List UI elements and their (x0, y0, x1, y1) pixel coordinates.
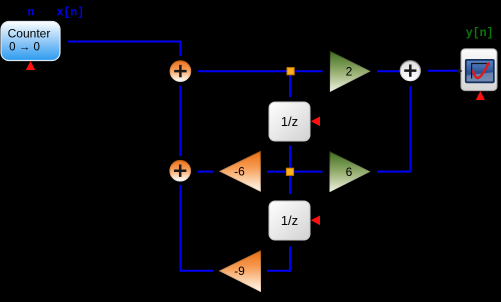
svg-text:0 → 0: 0 → 0 (9, 41, 40, 53)
wire junction2 -> gain-6 input (267, 171, 287, 173)
wire junction2 -> delay2 top (289, 176, 291, 194)
wire gain2 -> sum3 (377, 70, 400, 72)
scope input port arrow (458, 69, 463, 74)
wire delay2 bottom -> gain-9 input (267, 247, 290, 271)
gain G2 (value 2) (330, 51, 369, 91)
delay block 1/z #2 (269, 201, 310, 240)
svg-text:2: 2 (346, 64, 353, 78)
wire junction1 -> delay1 top (289, 75, 291, 97)
wire counter -> sum1 top (68, 42, 180, 57)
svg-text:-9: -9 (234, 264, 245, 278)
delay block 1/z #1 (269, 102, 310, 141)
svg-text:6: 6 (346, 165, 353, 179)
svg-text:-6: -6 (234, 164, 245, 178)
sum S2 (170, 161, 190, 181)
delay2 event output (red triangle) (311, 216, 320, 226)
sum S1 (170, 61, 190, 81)
wire gain-6 -> sum2 (198, 171, 214, 173)
wire sum3 -> scope (428, 70, 458, 72)
scope event port (red triangle) (476, 91, 485, 100)
sum S3 (400, 61, 420, 81)
junction node 1 (287, 68, 294, 75)
svg-text:1/z: 1/z (281, 213, 298, 228)
wire gain6 -> sum3 bottom (377, 87, 411, 172)
wire sum1 -> junction1 -> gain2 (198, 70, 323, 72)
gain G-6 (value -6) (220, 152, 260, 192)
gain G6 (value 6) (330, 152, 369, 192)
svg-text:y[n]: y[n] (466, 27, 494, 40)
scope block (461, 49, 497, 91)
svg-text:n: n (28, 6, 35, 19)
delay1 event output (red triangle) (311, 117, 320, 127)
wire delay1 bottom -> junction2 (289, 146, 291, 169)
svg-text:x[n]: x[n] (57, 7, 85, 20)
gain G-9 (value -9) (220, 251, 261, 291)
wire junction2 -> gain6 (294, 171, 323, 173)
svg-text:1/z: 1/z (281, 114, 298, 129)
wire gain-9 -> sum2 bottom (181, 185, 214, 271)
svg-text:Counter: Counter (8, 27, 51, 41)
junction node 2 (286, 168, 293, 175)
wire sum2 -> sum1 bottom (179, 86, 181, 156)
counter block (1, 22, 60, 61)
counter event port (red triangle) (26, 61, 35, 70)
